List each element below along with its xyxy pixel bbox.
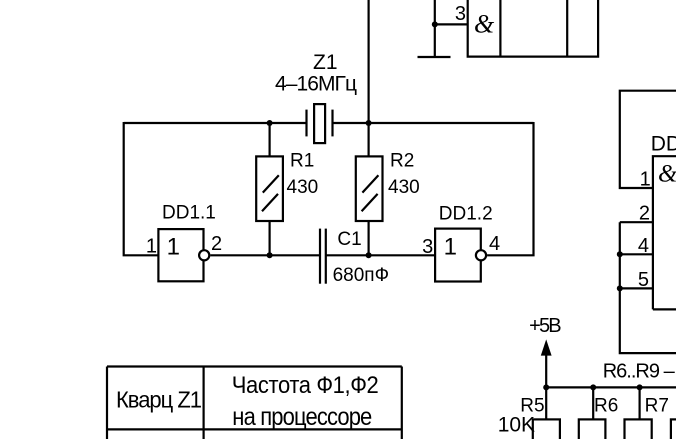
svg-text:R2: R2 [390,150,414,171]
wire right IC common vertical down [620,222,676,353]
wire right IC pin2 stub [620,221,653,223]
node junction top right [366,120,372,126]
wire right IC pin5 stub [620,287,653,289]
svg-text:1: 1 [167,233,180,260]
svg-text:Кварц Z1: Кварц Z1 [116,386,202,413]
svg-text:4–16МГц: 4–16МГц [275,73,357,96]
wire pin3 to top IC [435,23,468,25]
ground bar [418,56,451,58]
crystal Z1 left electrode [305,110,307,137]
capacitor C1 left plate [319,229,321,284]
svg-text:R6..R9 –: R6..R9 – [603,361,676,383]
svg-text:на процессоре: на процессоре [232,404,372,432]
node junction R6 [590,384,596,390]
svg-text:DD1.2: DD1.2 [439,204,493,225]
svg-text:1: 1 [146,236,157,258]
wire left loop down to DD1.1 input [124,122,159,255]
node junction pin4 [617,251,623,257]
wire R7 lead [638,387,640,419]
table frame [107,367,402,439]
svg-text:680пФ: 680пФ [333,265,389,286]
resistor R5 body (cut at bottom) [533,419,560,439]
node junction bottom right [366,252,372,258]
wire vertical at top gate input [434,0,436,57]
inverter DD1.2 inversion bubble [476,250,486,260]
svg-text:4: 4 [489,233,500,255]
inverter DD1.2 body [435,229,481,282]
resistor R8 body (cut at right) [671,419,676,439]
node junction bottom left [267,252,273,258]
top IC DD? outline (partial, cut at top) [468,0,598,57]
resistor R1 slash marks [262,175,279,211]
wire right loop down to DD1.2 output [487,122,533,255]
inverter DD1.1 inversion bubble [199,250,209,260]
svg-text:Z1: Z1 [313,51,338,74]
crystal Z1 right electrode [331,110,333,137]
wire R6 lead [592,387,594,419]
wire top left horizontal [124,122,307,124]
wire R1 bottom [269,221,271,256]
resistor R2 slash marks [362,175,379,211]
svg-text:DD1.1: DD1.1 [162,203,216,224]
svg-text:DD1: DD1 [651,133,676,156]
svg-text:430: 430 [287,177,319,198]
wire R5 lead [545,387,547,419]
wire bottom left segment (DD1.1 out to C1) [210,254,320,256]
node junction at pin3 [432,21,438,27]
wire +5V rail [546,386,676,388]
node junction R5 [543,384,549,390]
wire right IC pin1 from top edge [620,91,676,188]
resistor R1 body [256,156,283,221]
svg-text:3: 3 [422,236,433,258]
svg-text:430: 430 [388,177,420,198]
svg-text:4: 4 [638,235,649,257]
wire top right horizontal [333,122,534,124]
resistor R7 body (cut at bottom) [625,419,652,439]
svg-text:2: 2 [211,233,222,255]
svg-text:R1: R1 [290,150,314,171]
svg-text:&: & [474,10,495,39]
svg-text:2: 2 [639,203,650,225]
svg-text:+5В: +5В [529,315,562,337]
svg-text:&: & [658,160,676,187]
capacitor C1 right plate [325,229,327,284]
svg-text:Частота Ф1,Ф2: Частота Ф1,Ф2 [232,371,379,398]
node junction R7 [637,384,643,390]
wire right IC pin4 stub [620,253,653,255]
IC DD right box outline (partial) [653,156,676,309]
power +5V arrow stem [545,348,547,387]
wire R2 bottom [368,221,370,256]
svg-text:10K: 10K [498,414,535,437]
svg-text:R6: R6 [594,396,618,417]
inverter DD1.1 body [158,229,203,281]
svg-text:1: 1 [640,169,651,191]
wire R1 top [269,123,271,157]
node junction top left [267,120,273,126]
svg-text:1: 1 [444,233,457,260]
node junction pin5 [617,285,623,291]
resistor R6 body (cut at bottom) [579,419,606,439]
wire R2 top [368,123,370,157]
resistor R2 body [356,156,383,221]
wire from node B up to top edge [368,0,370,123]
wire bottom right segment (C1 to DD1.2 in) [326,254,435,256]
svg-text:3: 3 [455,3,466,25]
svg-text:R7: R7 [645,396,669,417]
svg-text:5: 5 [638,269,649,291]
crystal Z1 body [314,104,325,143]
power +5V arrowhead [541,339,552,355]
svg-text:C1: C1 [337,229,361,250]
